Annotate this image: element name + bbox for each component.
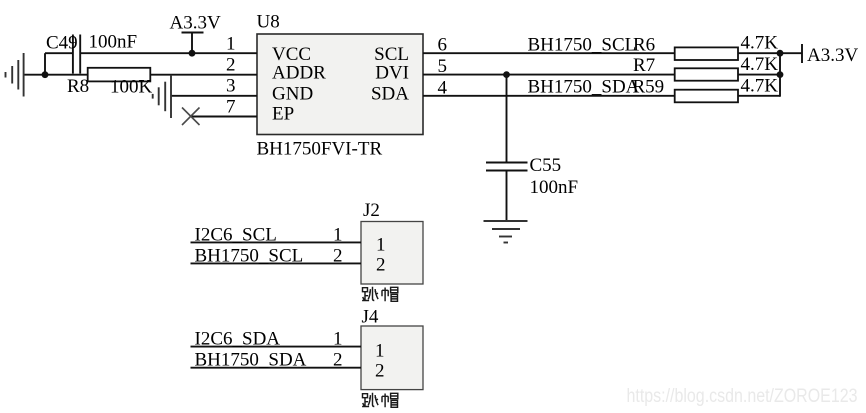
svg-text:I2C6_SCL: I2C6_SCL (195, 225, 277, 246)
svg-text:1: 1 (375, 341, 385, 362)
svg-text:5: 5 (438, 56, 448, 77)
svg-text:100nF: 100nF (89, 32, 138, 53)
svg-text:4.7K: 4.7K (741, 76, 779, 97)
svg-text:2: 2 (376, 255, 386, 276)
svg-text:R8: R8 (67, 76, 89, 97)
svg-text:C55: C55 (530, 155, 562, 176)
svg-text:1: 1 (333, 225, 343, 246)
svg-text:ADDR: ADDR (272, 63, 326, 84)
svg-text:R59: R59 (633, 77, 665, 98)
svg-text:1: 1 (376, 235, 386, 256)
svg-text:I2C6_SDA: I2C6_SDA (195, 329, 281, 350)
svg-text:2: 2 (375, 361, 385, 382)
svg-text:SDA: SDA (371, 84, 409, 105)
svg-text:U8: U8 (257, 12, 280, 33)
svg-text:2: 2 (333, 246, 343, 267)
svg-text:R6: R6 (633, 35, 655, 56)
svg-text:BH1750_SCL: BH1750_SCL (528, 35, 637, 56)
svg-text:A3.3V: A3.3V (170, 13, 221, 34)
svg-text:6: 6 (438, 35, 448, 56)
svg-text:J4: J4 (362, 307, 379, 328)
svg-text:2: 2 (226, 55, 236, 76)
svg-text:EP: EP (272, 104, 294, 125)
svg-text:DVI: DVI (375, 63, 409, 84)
svg-text:BH1750FVI-TR: BH1750FVI-TR (257, 139, 383, 160)
svg-text:2: 2 (333, 350, 343, 371)
svg-text:4.7K: 4.7K (741, 54, 779, 75)
svg-text:A3.3V: A3.3V (807, 45, 858, 66)
svg-text:100K: 100K (110, 77, 153, 98)
svg-text:100nF: 100nF (530, 177, 579, 198)
svg-text:1: 1 (226, 34, 236, 55)
svg-text:R7: R7 (633, 55, 655, 76)
svg-text:4.7K: 4.7K (741, 33, 779, 54)
svg-text:1: 1 (333, 329, 343, 350)
svg-text:BH1750_SDA: BH1750_SDA (528, 77, 640, 98)
svg-text:BH1750_SCL: BH1750_SCL (195, 246, 304, 267)
svg-text:BH1750_SDA: BH1750_SDA (195, 350, 307, 371)
svg-text:C49: C49 (46, 33, 78, 54)
svg-text:https://blog.csdn.net/ZOROE123: https://blog.csdn.net/ZOROE123 (627, 385, 858, 407)
svg-text:GND: GND (272, 84, 313, 105)
svg-text:7: 7 (226, 97, 236, 118)
svg-text:4: 4 (438, 78, 448, 99)
svg-text:J2: J2 (363, 200, 380, 221)
svg-text:3: 3 (226, 76, 236, 97)
